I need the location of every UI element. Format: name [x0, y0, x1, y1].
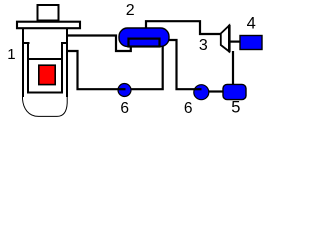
wire: horn bottom down to battery 5: [232, 51, 234, 85]
heater (red square): [39, 65, 55, 84]
wire: vessel upper terminal to relay bottom-left: [67, 36, 131, 52]
svg-text:6: 6: [184, 100, 193, 117]
svg-text:3: 3: [199, 37, 208, 54]
svg-text:5: 5: [231, 99, 240, 117]
switch 6a wire stub: [118, 88, 126, 90]
switch 6b wire stub: [194, 88, 202, 90]
wire: vessel lower terminal down to bottom row: [67, 51, 118, 89]
calorimeter 1: cap: [38, 5, 59, 21]
svg-text:1: 1: [7, 46, 15, 63]
calorimeter 1: rounded bottom: [23, 96, 68, 116]
calorimeter 1: liquid level line: [29, 58, 61, 60]
svg-text:2: 2: [126, 2, 135, 19]
relay 2: blue pill body: [119, 28, 169, 47]
calorimeter 1: outer wall left: [22, 28, 24, 97]
calorimeter 1: rim tick right: [61, 42, 68, 44]
battery 5: [223, 84, 246, 99]
wire: switch 6a to relay bottom: [131, 45, 163, 89]
wire: switch 6b to battery 5: [208, 90, 224, 92]
svg-text:4: 4: [247, 14, 256, 32]
wire: relay top to bell horn: [146, 21, 221, 34]
calorimeter 1: rim tick left: [22, 42, 30, 44]
bell horn (trapezoid): [221, 26, 229, 52]
bell horn mouth edge: [228, 25, 231, 52]
switch 6a: [118, 84, 131, 97]
relay 2: inner rectangle: [129, 39, 160, 47]
switch 6b: [194, 85, 209, 100]
calorimeter 1: inner vessel bottom: [27, 92, 63, 94]
svg-text:6: 6: [120, 100, 129, 117]
wire: relay right stub down to switch 6b: [167, 40, 194, 89]
calorimeter 1: outer wall right: [66, 28, 68, 97]
calorimeter 1: lid: [17, 22, 80, 29]
bell link bar: [230, 41, 240, 43]
bell box 4: [240, 36, 262, 50]
calorimeter 1: inner vessel wall right: [61, 42, 63, 94]
calorimeter 1: inner vessel wall left: [27, 42, 29, 94]
